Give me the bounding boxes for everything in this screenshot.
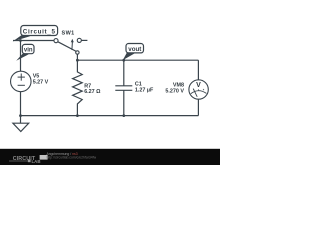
svg-text:Circuit_5: Circuit_5 — [23, 28, 56, 35]
svg-text:5.27 V: 5.27 V — [33, 80, 49, 86]
node label vout — [123, 44, 144, 61]
svg-text:V: V — [196, 82, 201, 89]
svg-text:VM8: VM8 — [173, 82, 184, 88]
svg-text:C1: C1 — [135, 81, 142, 87]
wire V5 bottom vertical — [20, 92, 22, 116]
node label Circuit_5 — [13, 26, 58, 42]
capacitor C1 — [115, 60, 154, 115]
wire bottom ground net horizontal — [21, 115, 199, 117]
junction node R7 top — [76, 59, 79, 62]
node label vin — [16, 44, 34, 60]
svg-text:V5: V5 — [33, 73, 40, 79]
svg-text:LAB: LAB — [32, 159, 41, 164]
voltage source V5 — [11, 71, 49, 92]
resistor R7 — [73, 60, 102, 115]
ground — [13, 116, 29, 132]
svg-text:5.270 V: 5.270 V — [165, 89, 184, 95]
junction node R7 bottom — [76, 114, 79, 117]
voltmeter VM8 — [165, 80, 208, 99]
switch SW1 — [54, 31, 87, 55]
wire V5 top vertical — [20, 41, 22, 72]
svg-text:vin: vin — [24, 47, 33, 53]
wire switch pole to vout net — [76, 54, 78, 60]
svg-text:1.27 µF: 1.27 µF — [135, 88, 154, 94]
junction node at vin/V5 tap — [19, 39, 22, 42]
wire voltmeter top vertical — [197, 60, 199, 80]
junction node C1 top / vout — [122, 59, 125, 62]
wire vout net horizontal — [77, 59, 198, 61]
svg-text:vout: vout — [128, 46, 141, 53]
svg-text:SW1: SW1 — [62, 31, 75, 37]
wire voltmeter bottom vertical — [197, 99, 199, 116]
junction node V5/ground — [19, 114, 22, 117]
junction node C1 bottom — [122, 114, 125, 117]
svg-text:http://circuitlab.com/c/e2hfar: http://circuitlab.com/c/e2hfar34fw — [47, 156, 97, 160]
wire vin net horizontal — [13, 40, 54, 42]
CircuitLab watermark footer — [0, 149, 220, 165]
svg-text:6.27 Ω: 6.27 Ω — [84, 89, 101, 95]
